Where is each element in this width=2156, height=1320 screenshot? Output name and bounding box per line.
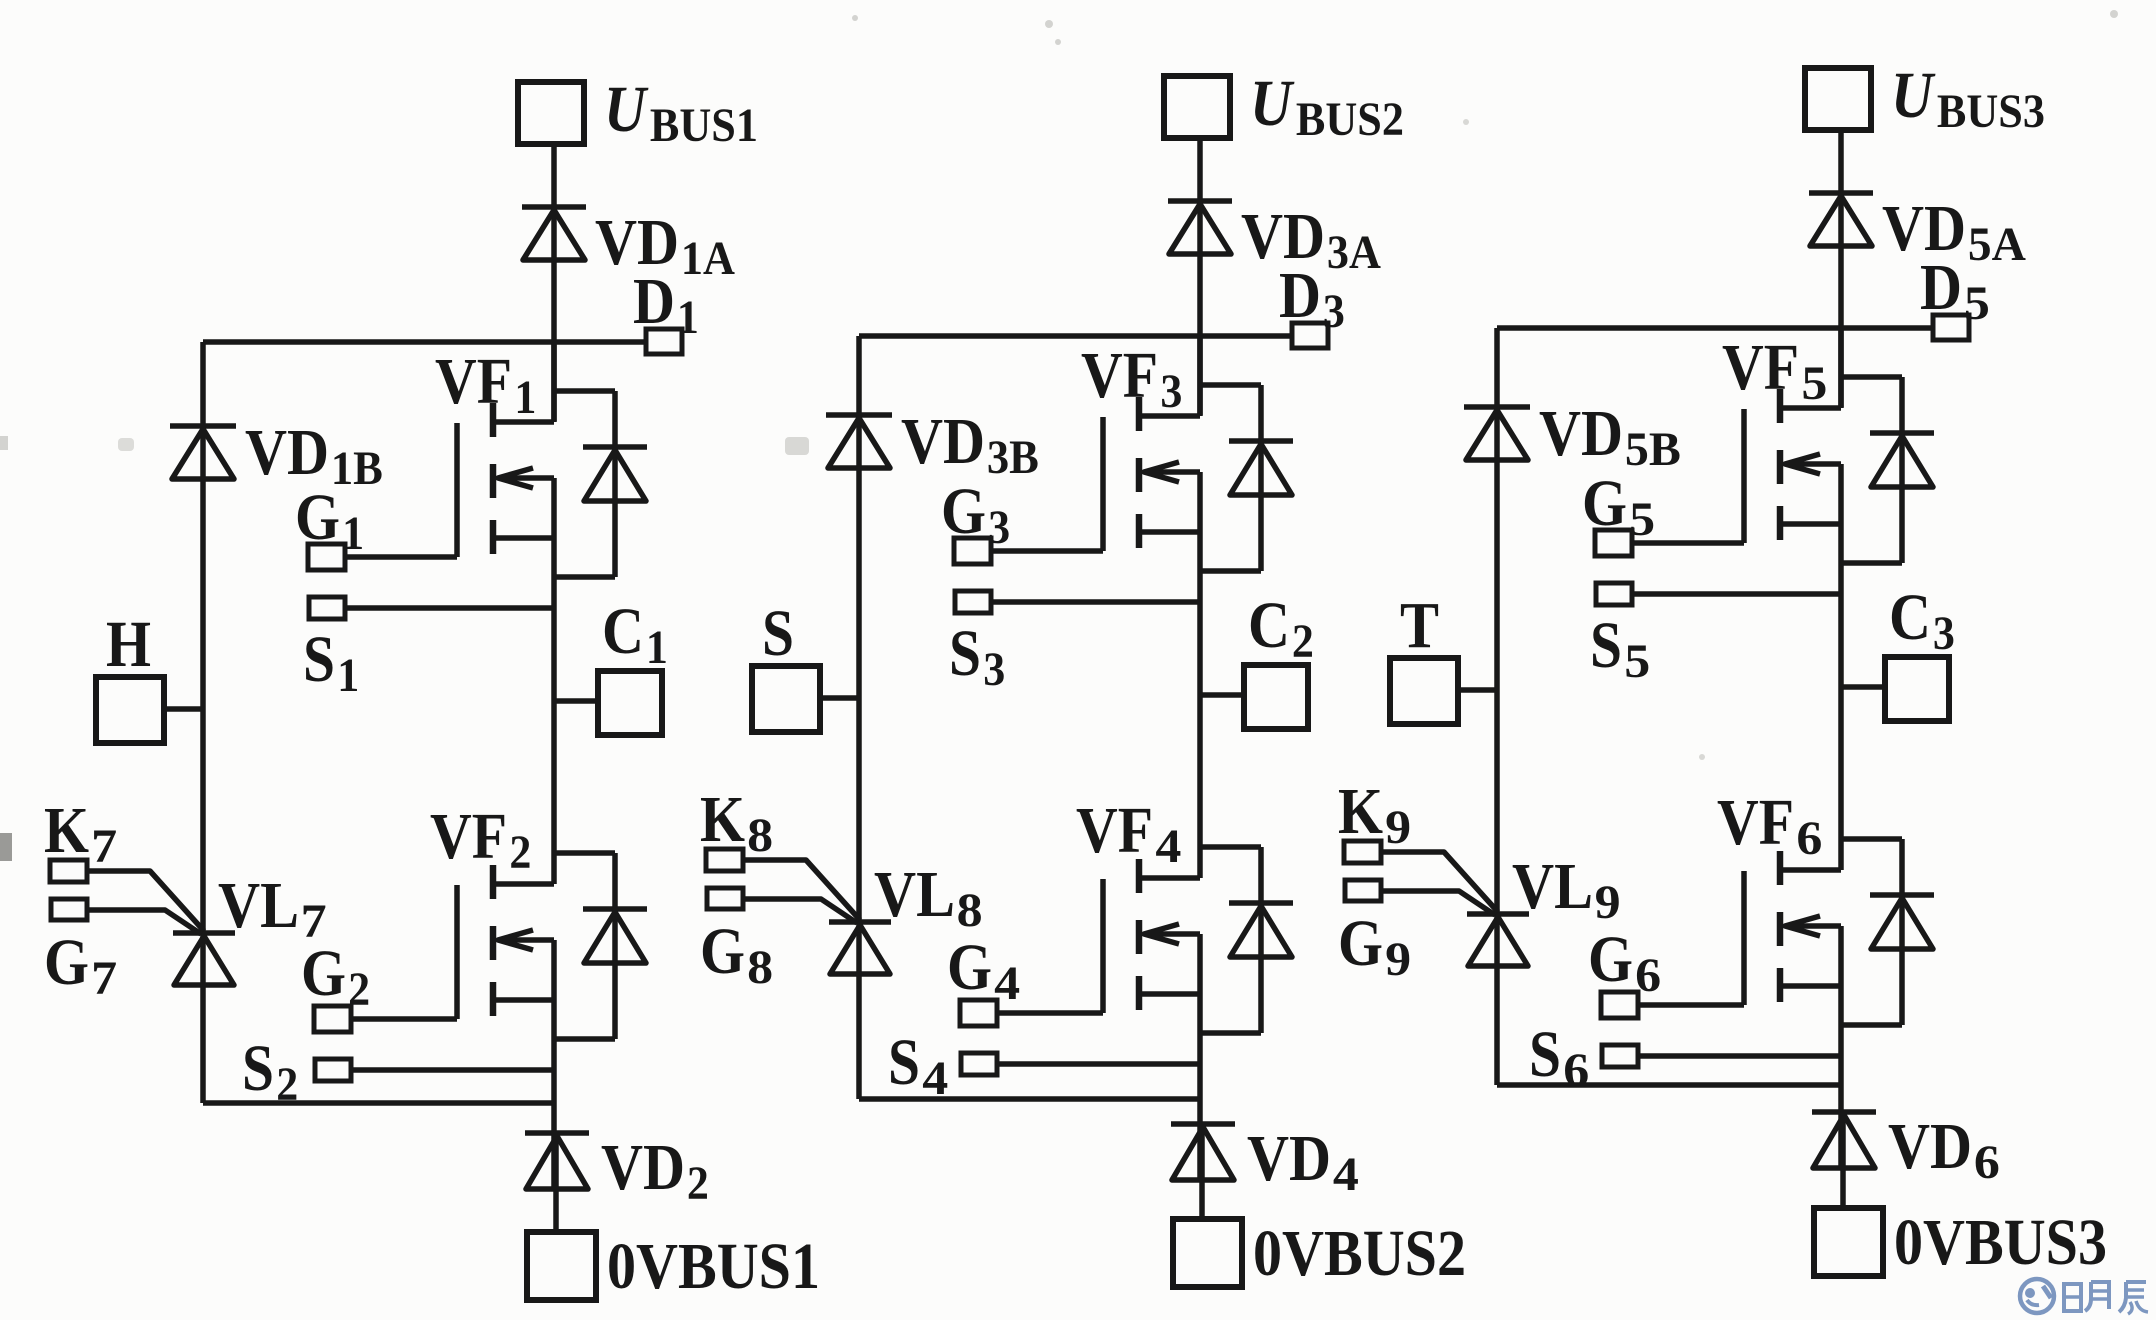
transistor VF1 channel	[490, 403, 497, 554]
wire VD5A to node D5	[1838, 193, 1844, 407]
svg-text:C: C	[1248, 589, 1290, 662]
transistor VF3 channel	[1136, 397, 1143, 548]
wire UBUS1 to VD1A	[551, 144, 557, 207]
wire left branch rail	[200, 342, 206, 1103]
transistor VF4 body arrow	[1144, 924, 1200, 944]
terminal D1	[646, 329, 682, 354]
svg-text:VD: VD	[1888, 1110, 1972, 1183]
label S4	[888, 1026, 948, 1105]
transistor VF2 drain tab	[493, 881, 554, 887]
label S3	[949, 617, 1005, 696]
terminal G8	[707, 888, 743, 909]
svg-text:6: 6	[1635, 949, 1661, 1002]
label VD5B	[1539, 397, 1681, 476]
transistor VF4 drain tab	[1139, 875, 1200, 881]
terminal G5	[1595, 530, 1632, 556]
label S6	[1529, 1018, 1589, 1097]
label 0VBUS3	[1894, 1206, 2107, 1279]
transistor VF5 source tab	[1780, 521, 1841, 527]
svg-text:G: G	[1588, 923, 1633, 996]
label VD1A	[595, 206, 735, 285]
label T	[1400, 589, 1439, 662]
svg-text:K: K	[1338, 775, 1383, 848]
transistor VF1 source tab	[493, 535, 554, 541]
wire source of VF1 to S1	[345, 605, 554, 611]
wire G7 to VL7 gate	[87, 910, 201, 934]
svg-text:3A: 3A	[1327, 226, 1381, 279]
diode VD6	[1812, 1112, 1876, 1168]
transistor VF5 drain tab	[1780, 405, 1841, 411]
label transistor VF6	[1717, 786, 1822, 865]
terminal S	[752, 666, 820, 732]
wire VD1A to node D1	[551, 207, 557, 421]
svg-text:6: 6	[1796, 812, 1822, 865]
label VL8	[874, 858, 983, 937]
transistor VF1 body arrow	[498, 468, 554, 488]
svg-text:2: 2	[348, 963, 370, 1016]
svg-text:5A: 5A	[1968, 218, 2026, 271]
svg-text:6: 6	[1974, 1136, 2000, 1189]
svg-text:VD: VD	[901, 405, 985, 478]
svg-text:VD: VD	[601, 1131, 685, 1204]
diode VD5B	[1464, 407, 1530, 460]
svg-text:BUS2: BUS2	[1296, 93, 1404, 146]
label G3	[941, 475, 1010, 554]
thyristor VL7	[173, 933, 235, 985]
label transistor VF4	[1076, 794, 1181, 873]
wire left branch rail	[856, 336, 862, 1099]
svg-text:G: G	[1582, 467, 1627, 540]
svg-text:VL: VL	[1512, 850, 1593, 923]
terminal D3	[1292, 323, 1328, 348]
svg-text:1A: 1A	[681, 232, 735, 285]
terminal G2	[314, 1006, 351, 1032]
label S	[762, 597, 794, 670]
diode VD1A	[522, 207, 586, 260]
scan smudges	[0, 10, 2118, 861]
label transistor VF1	[435, 345, 536, 424]
terminal S6	[1602, 1045, 1638, 1067]
wire VD3A to node D3	[1197, 201, 1203, 415]
svg-text:S: S	[303, 623, 335, 696]
svg-text:VD: VD	[1539, 397, 1623, 470]
wire gate of VF4 to G4	[997, 1010, 1103, 1016]
svg-text:C: C	[602, 595, 644, 668]
wire node C2	[1200, 692, 1244, 698]
svg-text:0VBUS3: 0VBUS3	[1894, 1206, 2107, 1279]
transistor VF3 gate	[1100, 417, 1106, 551]
label S1	[303, 623, 359, 702]
label transistor VF3	[1081, 339, 1182, 418]
wire node C1	[554, 698, 598, 704]
svg-text:7: 7	[91, 952, 117, 1005]
svg-text:3B: 3B	[987, 431, 1039, 484]
terminal K8	[706, 849, 743, 871]
label VD4	[1247, 1122, 1359, 1201]
svg-text:1B: 1B	[331, 442, 383, 495]
wire gate of VF5 to G5	[1632, 540, 1744, 546]
terminal 0VBUS1	[527, 1232, 596, 1300]
transistor VF6 source tab	[1780, 983, 1841, 989]
terminal UBUS2	[1164, 76, 1230, 138]
transistor VF6 channel	[1777, 851, 1784, 1002]
wire K9 to VL9 cathode	[1381, 852, 1498, 912]
wire gate of VF2 to G2	[351, 1016, 457, 1022]
terminal G1	[308, 544, 345, 570]
label G7	[44, 926, 117, 1005]
svg-text:VL: VL	[218, 869, 299, 942]
svg-text:3: 3	[1323, 285, 1345, 338]
diode body of VF6	[1841, 839, 1934, 1025]
wire lower node	[1497, 1082, 1841, 1088]
transistor VF5 channel	[1777, 389, 1784, 540]
terminal T	[1390, 658, 1458, 724]
terminal C2	[1244, 665, 1308, 729]
transistor VF6 gate	[1741, 871, 1747, 1005]
label G8	[700, 915, 773, 994]
svg-text:7: 7	[301, 895, 327, 948]
terminal S5	[1596, 583, 1632, 605]
transistor VF3 body arrow	[1144, 462, 1200, 482]
svg-text:4: 4	[1155, 820, 1181, 873]
diode VD3A	[1168, 201, 1232, 254]
wire VD6 to 0VBUS3	[1840, 1112, 1846, 1208]
wire drain rail VF5	[1838, 328, 1844, 408]
watermark logo	[2020, 1279, 2148, 1314]
diode VD1B	[170, 426, 236, 479]
label node D5	[1920, 251, 1990, 330]
wire G9 to VL9 gate	[1381, 891, 1495, 915]
svg-text:C: C	[1889, 581, 1931, 654]
diode body of VF3	[1200, 385, 1293, 571]
label VD2	[601, 1131, 709, 1210]
transistor VF3 drain tab	[1139, 413, 1200, 419]
label node C2	[1248, 589, 1314, 668]
label node C1	[602, 595, 668, 674]
label H	[106, 608, 151, 681]
wire gate of VF1 to G1	[345, 554, 457, 560]
label G4	[947, 931, 1020, 1010]
wire UBUS3 to VD5A	[1838, 130, 1844, 193]
wire H to left rail	[164, 706, 203, 712]
svg-text:1: 1	[342, 507, 364, 560]
terminal D5	[1933, 315, 1969, 340]
terminal G6	[1601, 992, 1638, 1018]
wire G8 to VL8 gate	[743, 899, 857, 923]
transistor VF5 gate	[1741, 409, 1747, 543]
transistor VF5 body arrow	[1785, 454, 1841, 474]
wire node D5	[1497, 325, 1933, 331]
svg-text:4: 4	[994, 957, 1020, 1010]
wire source of VF2 to S2	[351, 1067, 554, 1073]
terminal 0VBUS3	[1814, 1208, 1883, 1276]
label node D1	[633, 265, 699, 344]
svg-text:VF: VF	[1722, 331, 1799, 404]
transistor VF2 source tab	[493, 997, 554, 1003]
label S2	[242, 1032, 298, 1111]
svg-text:3: 3	[983, 643, 1005, 696]
transistor VF6 drain tab	[1780, 867, 1841, 873]
diode VD3B	[826, 415, 892, 468]
diode body of VF4	[1200, 847, 1293, 1033]
svg-text:9: 9	[1385, 801, 1411, 854]
label G9	[1338, 907, 1411, 986]
wire left branch rail	[1494, 328, 1500, 1085]
transistor VF2 channel	[490, 865, 497, 1016]
label S5	[1590, 609, 1650, 688]
terminal C1	[598, 671, 662, 735]
terminal G3	[954, 538, 991, 564]
svg-text:S: S	[949, 617, 981, 690]
wire UBUS2 to VD3A	[1197, 138, 1203, 201]
transistor VF2 gate	[454, 885, 460, 1019]
svg-text:D: D	[1920, 251, 1962, 324]
svg-text:K: K	[44, 794, 89, 867]
svg-text:8: 8	[957, 884, 983, 937]
label transistor VF2	[430, 800, 531, 879]
wire gate of VF3 to G3	[991, 548, 1103, 554]
wire drain rail VF3	[1197, 336, 1203, 416]
label VD3A	[1241, 200, 1381, 279]
transistor VF4 gate	[1100, 879, 1106, 1013]
label 0VBUS2	[1253, 1217, 1466, 1290]
transistor VF1 gate	[454, 423, 460, 557]
svg-text:6: 6	[1563, 1044, 1589, 1097]
wire S to left rail	[820, 695, 859, 701]
svg-text:2: 2	[1292, 615, 1314, 668]
thyristor VL9	[1467, 914, 1529, 966]
svg-text:D: D	[633, 265, 675, 338]
transistor VF6 body arrow	[1785, 916, 1841, 936]
terminal 0VBUS2	[1173, 1219, 1242, 1287]
svg-text:G: G	[947, 931, 992, 1004]
wire lower node	[203, 1100, 554, 1106]
label VL9	[1512, 850, 1621, 929]
diode body of VF5	[1841, 377, 1934, 563]
transistor VF4 channel	[1136, 859, 1143, 1010]
wire gate of VF6 to G6	[1638, 1002, 1744, 1008]
terminal UBUS1	[518, 82, 584, 144]
svg-text:VF: VF	[430, 800, 507, 873]
svg-text:T: T	[1400, 589, 1439, 662]
svg-text:U: U	[604, 73, 649, 146]
svg-text:G: G	[700, 915, 745, 988]
svg-text:3: 3	[1933, 607, 1955, 660]
label node C3	[1889, 581, 1955, 660]
diode body of VF2	[554, 853, 647, 1039]
wire source of VF5 to S5	[1632, 591, 1841, 597]
svg-text:VD: VD	[1247, 1122, 1331, 1195]
terminal S2	[315, 1059, 351, 1081]
terminal S4	[961, 1053, 997, 1075]
wire node C3	[1841, 684, 1885, 690]
svg-text:D: D	[1279, 259, 1321, 332]
svg-text:1: 1	[337, 649, 359, 702]
svg-text:5B: 5B	[1625, 423, 1681, 476]
wire source rail VF2	[551, 940, 557, 1189]
wire node D3	[859, 333, 1292, 339]
wire K7 to VL7 cathode	[87, 871, 204, 931]
diode body of VF1	[554, 391, 647, 577]
svg-text:1: 1	[677, 291, 699, 344]
svg-text:2: 2	[687, 1157, 709, 1210]
terminal UBUS3	[1805, 68, 1871, 130]
terminal G4	[960, 1000, 997, 1026]
label node D3	[1279, 259, 1345, 338]
svg-text:G: G	[44, 926, 89, 999]
svg-text:S: S	[242, 1032, 274, 1105]
svg-text:3: 3	[1160, 365, 1182, 418]
wire source rail VF6	[1838, 926, 1844, 1168]
label 0VBUS1	[607, 1230, 820, 1303]
label K8	[700, 783, 773, 862]
svg-text:VF: VF	[1081, 339, 1158, 412]
svg-text:1: 1	[646, 621, 668, 674]
svg-text:VF: VF	[435, 345, 512, 418]
wire node D1	[203, 339, 646, 345]
label G1	[295, 481, 364, 560]
svg-text:VF: VF	[1717, 786, 1794, 859]
label UBUS2	[1250, 67, 1404, 146]
diode VD4	[1171, 1124, 1235, 1180]
svg-text:8: 8	[747, 941, 773, 994]
label VD5A	[1882, 192, 2026, 271]
svg-text:S: S	[1590, 609, 1622, 682]
label G5	[1582, 467, 1655, 546]
svg-text:5: 5	[1624, 635, 1650, 688]
wire source of VF4 to S4	[997, 1061, 1200, 1067]
label UBUS1	[604, 73, 758, 152]
terminal K7	[50, 860, 87, 882]
label VD3B	[901, 405, 1039, 484]
svg-text:2: 2	[509, 826, 531, 879]
label VD6	[1888, 1110, 2000, 1189]
transistor VF2 body arrow	[498, 930, 554, 950]
wire VD4 to 0VBUS2	[1199, 1124, 1205, 1219]
svg-text:H: H	[106, 608, 151, 681]
terminal C3	[1885, 657, 1949, 721]
label VD1B	[245, 416, 383, 495]
svg-text:S: S	[762, 597, 794, 670]
svg-text:VD: VD	[245, 416, 329, 489]
wire K8 to VL8 cathode	[743, 860, 860, 920]
wire source rail VF1	[551, 478, 557, 884]
wire source rail VF5	[1838, 464, 1844, 870]
svg-text:VL: VL	[874, 858, 955, 931]
label K9	[1338, 775, 1411, 854]
wire T to left rail	[1458, 687, 1497, 693]
label VL7	[218, 869, 327, 948]
terminal K9	[1344, 841, 1381, 863]
svg-text:7: 7	[91, 820, 117, 873]
label UBUS3	[1891, 59, 2045, 138]
svg-text:VF: VF	[1076, 794, 1153, 867]
diode VD5A	[1809, 193, 1873, 246]
svg-text:BUS1: BUS1	[650, 99, 758, 152]
wire VD2 to 0VBUS1	[553, 1133, 559, 1232]
label G2	[301, 937, 370, 1016]
label transistor VF5	[1722, 331, 1827, 410]
wire source rail VF3	[1197, 472, 1203, 878]
svg-text:0VBUS1: 0VBUS1	[607, 1230, 820, 1303]
wire lower node	[859, 1096, 1200, 1102]
terminal G7	[51, 899, 87, 920]
svg-text:0VBUS2: 0VBUS2	[1253, 1217, 1466, 1290]
svg-text:5: 5	[1629, 493, 1655, 546]
label K7	[44, 794, 117, 873]
terminal S1	[309, 597, 345, 619]
svg-text:K: K	[700, 783, 745, 856]
svg-text:G: G	[1338, 907, 1383, 980]
svg-text:3: 3	[988, 501, 1010, 554]
svg-text:1: 1	[514, 371, 536, 424]
wire drain rail VF1	[551, 342, 557, 422]
terminal G9	[1345, 880, 1381, 901]
wire source of VF3 to S3	[991, 599, 1200, 605]
svg-text:U: U	[1891, 59, 1936, 132]
transistor VF1 drain tab	[493, 419, 554, 425]
wire source rail VF4	[1197, 934, 1203, 1180]
svg-text:8: 8	[747, 809, 773, 862]
label G6	[1588, 923, 1661, 1002]
svg-text:S: S	[1529, 1018, 1561, 1091]
svg-text:G: G	[941, 475, 986, 548]
transistor VF4 source tab	[1139, 991, 1200, 997]
wire source of VF6 to S6	[1638, 1053, 1841, 1059]
svg-text:5: 5	[1801, 357, 1827, 410]
terminal H	[96, 677, 164, 743]
svg-text:U: U	[1250, 67, 1295, 140]
svg-text:9: 9	[1595, 876, 1621, 929]
svg-text:BUS3: BUS3	[1937, 85, 2045, 138]
diode VD2	[525, 1133, 589, 1189]
svg-text:4: 4	[1333, 1148, 1359, 1201]
svg-text:S: S	[888, 1026, 920, 1099]
terminal S3	[955, 591, 991, 613]
svg-text:5: 5	[1964, 277, 1990, 330]
transistor VF3 source tab	[1139, 529, 1200, 535]
svg-text:9: 9	[1385, 933, 1411, 986]
thyristor VL8	[829, 922, 891, 974]
